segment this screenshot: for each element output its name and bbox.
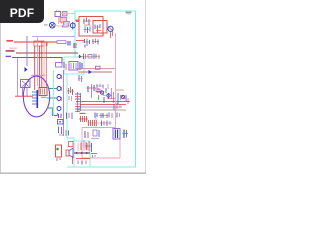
- components on pink bottom: [91, 154, 97, 158]
- wire red crt base: [15, 95, 33, 97]
- caps col x79: [78, 75, 83, 82]
- IF block box: [79, 17, 103, 37]
- components in pink rect: [84, 130, 99, 148]
- wire pink pair: [59, 17, 67, 25]
- wire lavender drop: [37, 37, 39, 87]
- diode D3: [76, 152, 78, 154]
- wire purple v63: [63, 70, 65, 136]
- connector J3 in box: [69, 62, 78, 71]
- transistor Q3: [100, 91, 104, 95]
- deflection yoke L1: [39, 88, 47, 96]
- node B input label: [6, 56, 12, 57]
- wire lavender top: [32, 36, 76, 38]
- node red entry label: [76, 20, 79, 22]
- wire pink rect bottom: [82, 157, 120, 159]
- wire teal focus: [49, 88, 58, 90]
- transistor Q4: [107, 93, 110, 99]
- cluster red mid-left: [67, 87, 74, 101]
- chroma block box: [93, 21, 107, 34]
- node gun pin labels: [31, 75, 45, 76]
- wire gun feed 3: [38, 46, 40, 88]
- wire audio lower: [76, 158, 90, 160]
- node G input label: [6, 50, 15, 52]
- wire cyan mid box: [64, 57, 84, 74]
- tuner symbol M1: [50, 22, 56, 28]
- cluster left of pink rect: [85, 141, 92, 152]
- IC U4 pin block: [75, 92, 81, 112]
- marks below boxes: [92, 39, 99, 45]
- transistor Q5: [121, 95, 125, 99]
- wire pink rect right: [119, 139, 121, 158]
- component top mid: [56, 62, 67, 70]
- capacitor C2: [74, 43, 76, 48]
- cluster mid lower row: [99, 113, 120, 119]
- wire red entry: [76, 21, 79, 23]
- page right border: [145, 0, 147, 174]
- crystal X1 box: [63, 22, 70, 28]
- CRT picture tube V1: [23, 76, 49, 117]
- wire gun feed 1: [34, 46, 36, 90]
- speaker LS1: [66, 148, 73, 158]
- transformer T1: [113, 129, 120, 140]
- wire pink rect left: [81, 128, 83, 159]
- wire red video bus: [14, 41, 57, 43]
- wire red v47 top: [46, 42, 48, 46]
- caps in audio box: [78, 143, 87, 152]
- wire red drop q2: [111, 31, 113, 38]
- IC U2 pins: [95, 24, 102, 33]
- wire maroon h101: [76, 101, 130, 103]
- wire pink rect top: [82, 127, 116, 129]
- caps row bottom: [95, 113, 107, 119]
- wire audio bus: [74, 152, 90, 154]
- wire pink J2 to frame: [61, 13, 76, 15]
- caps column mid-left band: [58, 113, 73, 125]
- page bottom border: [0, 172, 146, 174]
- column of caps left: [57, 75, 62, 111]
- cluster misc mid: [96, 88, 126, 104]
- page left border: [0, 0, 2, 174]
- caps column below band: [59, 127, 69, 137]
- wire red h40: [76, 40, 84, 42]
- CRT gun pins: [32, 92, 37, 104]
- wire teal heater: [47, 108, 58, 116]
- resistor R3: [96, 66, 101, 69]
- fuse box near audio: [69, 142, 74, 147]
- wire maroon h110: [78, 109, 126, 111]
- wire gun feed 4: [41, 41, 43, 88]
- wire pink h: [55, 25, 70, 27]
- diode D1 arrow: [25, 67, 28, 72]
- wire purple h107: [78, 106, 122, 108]
- capacitor C1: [68, 41, 70, 46]
- capacitor C3: [80, 62, 82, 70]
- transistor Q2: [108, 26, 113, 31]
- cluster over U4: [87, 84, 101, 98]
- wire pink vertical main: [115, 33, 117, 128]
- component row y55: [78, 54, 100, 60]
- connector J1: [21, 80, 31, 97]
- node R input label: [6, 40, 13, 42]
- wire gun feed 6: [45, 42, 47, 88]
- resistor R2: [57, 41, 66, 44]
- wire teal g2: [47, 97, 57, 99]
- resistor network box: [34, 41, 44, 46]
- node faint label: [9, 48, 17, 49]
- wire pink stub v96: [95, 118, 97, 128]
- resistor row bank2: [87, 120, 112, 126]
- wire purple drop: [26, 36, 28, 66]
- wire red h104: [80, 104, 126, 106]
- diode D5: [86, 152, 88, 154]
- PDF badge: [0, 0, 44, 23]
- cluster above pink corner: [102, 121, 111, 127]
- wire maroon h68: [76, 68, 116, 70]
- svg-text:PDF: PDF: [10, 6, 35, 20]
- connector J2 top: [55, 11, 67, 17]
- CRT electron gun bar: [37, 90, 39, 108]
- transistor Q1: [70, 22, 75, 30]
- cluster right scatter: [114, 98, 128, 110]
- cluster upper scatter: [96, 84, 108, 90]
- capacitor C5 polar: [56, 145, 62, 161]
- wire cyan column left: [53, 70, 55, 116]
- wire cyan column right: [67, 74, 74, 141]
- audio cyan box: [74, 141, 90, 167]
- wire teal bottom: [57, 113, 59, 116]
- resistors audio lower: [78, 161, 86, 165]
- IC U3 cluster below: [83, 39, 90, 48]
- node small text: [44, 24, 48, 25]
- wire maroon h72: [78, 71, 112, 73]
- diode D4: [81, 152, 83, 154]
- wire gun feed 5: [43, 46, 45, 88]
- IC U1 pins: [83, 18, 91, 34]
- node yoke label: [41, 97, 47, 98]
- wire purple left drop: [17, 58, 19, 96]
- wire maroon bus: [16, 52, 78, 54]
- title block text: [126, 12, 132, 15]
- schematic frame border: [67, 11, 136, 167]
- wire red speaker drop: [72, 156, 74, 164]
- resistor row bank1: [79, 113, 88, 122]
- diode D2: [89, 70, 93, 74]
- capacitor C4: [123, 130, 129, 139]
- wire purple bus: [12, 58, 62, 65]
